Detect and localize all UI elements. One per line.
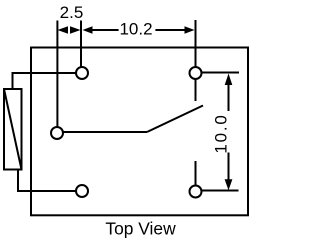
dimension 10.2 line and arrows xyxy=(83,26,195,33)
svg-text:10.0: 10.0 xyxy=(212,113,231,153)
extension line middle (2.5/10.2) down to pin 1 xyxy=(80,21,82,74)
svg-text:Top View: Top View xyxy=(105,218,176,238)
relay body outline (top view) xyxy=(31,48,248,216)
svg-text:10.2: 10.2 xyxy=(119,20,152,39)
wire: common pin 3 to switch pivot xyxy=(57,131,147,133)
switch armature (movable contact) xyxy=(147,106,203,133)
wire: coil top to pin 1 xyxy=(13,73,83,89)
switch fixed contact stub from pin 4 xyxy=(195,73,197,101)
dimension 2.5 arrows xyxy=(58,26,81,33)
extension line from pin 5 (10.0 bottom) xyxy=(196,190,239,192)
dimension 10.0 line and arrows xyxy=(225,74,233,191)
svg-text:2.5: 2.5 xyxy=(60,3,84,22)
coil K1 xyxy=(4,89,22,170)
pin 3 (common, middle-left) xyxy=(51,127,63,139)
pin 1 (coil, top-left) xyxy=(76,67,88,79)
pin 2 (coil, bottom-left) xyxy=(76,185,88,197)
wire: coil bottom to pin 2 xyxy=(18,170,82,192)
pin 4 (contact, top-right) xyxy=(190,67,202,79)
extension line left (2.5) down to pin 3 xyxy=(56,21,58,134)
extension line right (10.2) down to pin 4 xyxy=(195,20,197,73)
pin 5 (contact, bottom-right) xyxy=(190,186,202,198)
extension line from pin 4 (10.0 top) xyxy=(196,72,240,74)
contact stub from pin 5 xyxy=(195,161,197,192)
